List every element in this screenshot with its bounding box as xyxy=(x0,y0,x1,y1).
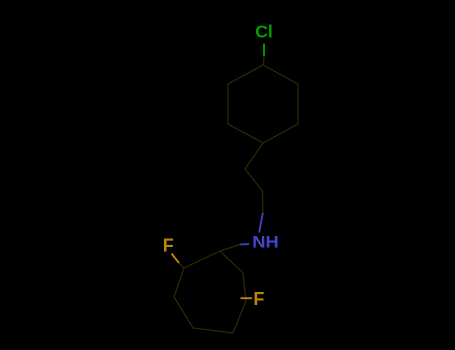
svg-text:Cl: Cl xyxy=(255,22,273,42)
bond C-F1 (carbon half) xyxy=(179,263,184,268)
bond C-Cl (carbon half) xyxy=(263,56,266,65)
svg-text:F: F xyxy=(163,236,174,256)
bond C-F2 (goldenrod) xyxy=(241,297,253,299)
bond CH2-N (blue half) xyxy=(259,213,263,233)
benzene ring 1 (4-chlorophenyl) xyxy=(228,65,298,143)
bond C-F1 (goldenrod) xyxy=(172,254,180,264)
benzene ring 2 (difluorophenyl) xyxy=(174,251,246,333)
bond N-C1 (blue half) xyxy=(240,243,249,246)
svg-text:F: F xyxy=(253,289,264,309)
bond N-C1 (carbon half) xyxy=(220,245,240,252)
svg-text:NH: NH xyxy=(252,233,279,252)
wire chain: ring1 to CH2-CH2 xyxy=(245,143,263,213)
bond C-Cl (green half) xyxy=(263,44,265,57)
